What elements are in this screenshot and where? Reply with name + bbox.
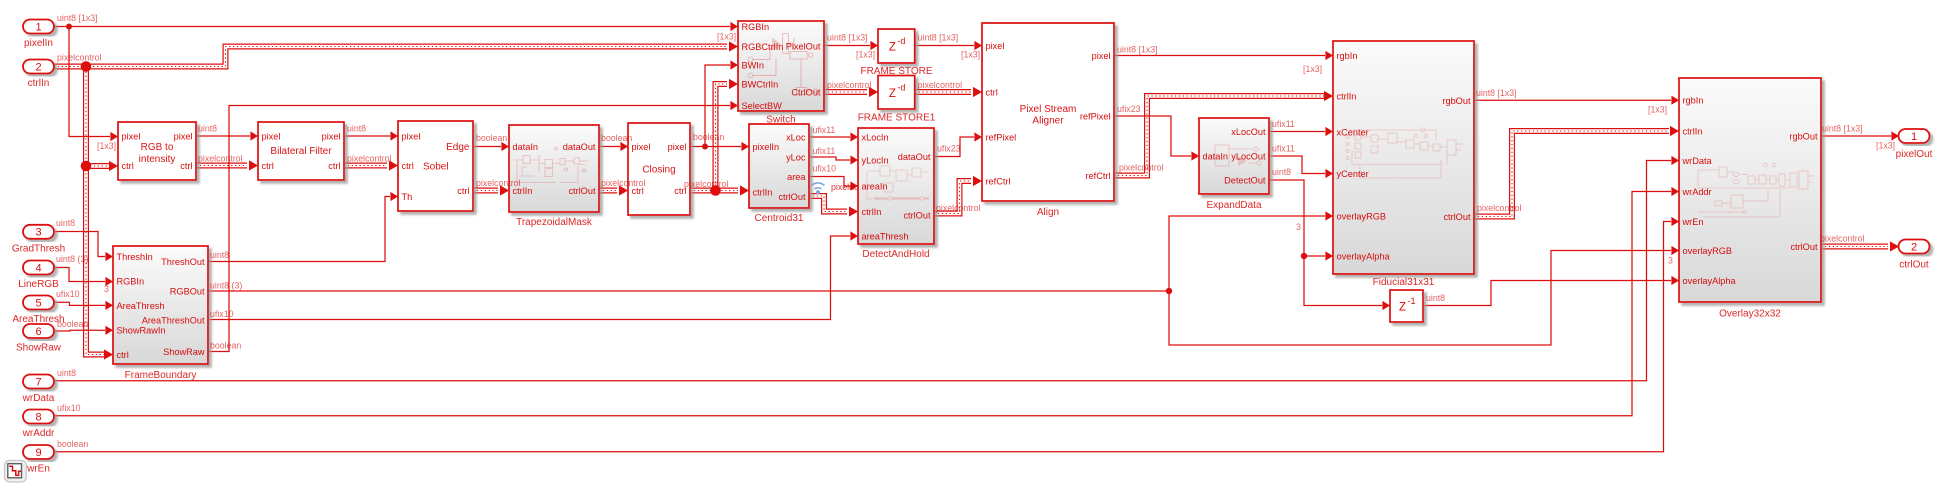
wire pixelIn branch to RGB to intensity pixel <box>69 27 118 142</box>
svg-text:refPixel: refPixel <box>986 132 1017 142</box>
svg-text:DetectAndHold: DetectAndHold <box>862 249 929 260</box>
svg-text:BWCtrlIn: BWCtrlIn <box>742 79 779 89</box>
annotation pixelcontrol at 347,161.5 <box>347 154 392 164</box>
annotation ufix10 at 56,297 <box>56 289 80 299</box>
inport 8 wrAddr <box>22 410 55 440</box>
svg-text:GradThresh: GradThresh <box>12 243 65 254</box>
annotation uint8 at 56,226 <box>56 218 75 228</box>
svg-text:pixel: pixel <box>1092 51 1111 61</box>
svg-text:FRAME STORE: FRAME STORE <box>860 66 932 77</box>
svg-text:Sobel: Sobel <box>423 162 449 173</box>
bus TrapezoidalMask ctrlOut to Closing ctrl <box>599 185 628 195</box>
inport 4 LineRGB <box>18 261 59 291</box>
svg-text:xLocOut: xLocOut <box>1231 127 1266 137</box>
svg-text:PixelOut: PixelOut <box>786 41 821 51</box>
annotation boolean at 601,141 <box>601 133 632 143</box>
wire Centroid31 area to DetectAndHold areaIn <box>809 177 858 191</box>
svg-text:Overlay32x32: Overlay32x32 <box>1719 309 1781 320</box>
signal name pixeldo label <box>831 182 859 192</box>
svg-text:Edge: Edge <box>446 142 470 153</box>
wire Align refPixel to ExpandData dataIn <box>1114 116 1199 161</box>
annotation 3 at 1668,263.5 <box>1668 256 1673 266</box>
label DetectAndHold <box>862 249 929 260</box>
svg-text:ctrlOut: ctrlOut <box>778 192 806 202</box>
annotation ufix23 at 1117,112 <box>1117 104 1141 114</box>
svg-text:ufix10: ufix10 <box>56 289 80 299</box>
svg-text:pixelIn: pixelIn <box>753 142 780 152</box>
annotation [1x3] at 856,57.5 <box>856 50 875 60</box>
inport 5 AreaThresh <box>12 296 64 326</box>
svg-text:5: 5 <box>35 297 41 309</box>
svg-text:ExpandData: ExpandData <box>1206 200 1261 211</box>
bus Centroid31 ctrlOut to DetectAndHold ctrlIn <box>809 196 858 217</box>
inport 9 wrEn <box>23 445 54 475</box>
annotation ufix11 at 812.5,133 <box>813 125 836 135</box>
svg-text:3: 3 <box>1296 222 1301 232</box>
svg-text:pixel: pixel <box>322 131 341 141</box>
svg-text:areaThresh: areaThresh <box>862 231 909 241</box>
svg-text:3: 3 <box>35 227 41 239</box>
annotation 3 at 104,292 <box>104 284 109 294</box>
svg-text:4: 4 <box>35 262 41 274</box>
annotation uint8 [1x3] at 827,40.5 <box>827 33 868 43</box>
svg-text:yLoc: yLoc <box>786 152 806 162</box>
svg-text:uint8 [1x3]: uint8 [1x3] <box>1822 124 1863 134</box>
svg-text:boolean: boolean <box>476 133 507 143</box>
svg-text:1: 1 <box>1911 131 1917 143</box>
annotation pixelcontrol at 684,187 <box>684 179 729 189</box>
label Switch <box>766 115 795 126</box>
svg-text:overlayAlpha: overlayAlpha <box>1683 276 1737 286</box>
wire Bilateral Filter pixel to Sobel <box>344 131 398 140</box>
svg-text:ThreshOut: ThreshOut <box>161 257 205 267</box>
svg-text:FrameBoundary: FrameBoundary <box>125 370 197 381</box>
svg-text:ctrlOut: ctrlOut <box>903 210 931 220</box>
label TrapezoidalMask <box>516 217 593 228</box>
junction BW ctrl bus node <box>710 185 721 196</box>
svg-text:ufix23: ufix23 <box>937 144 961 154</box>
label FRAME STORE <box>860 66 932 77</box>
svg-text:pixelcontrol: pixelcontrol <box>198 154 243 164</box>
svg-text:pixelcontrol: pixelcontrol <box>347 154 392 164</box>
svg-text:dataOut: dataOut <box>898 152 931 162</box>
svg-text:xCenter: xCenter <box>1337 127 1369 137</box>
block FRAME STORE (Z^-d delay) <box>878 29 915 63</box>
svg-text:areaIn: areaIn <box>862 181 888 191</box>
svg-text:wrEn: wrEn <box>26 464 50 475</box>
annotation boolean at 210,348.5 <box>210 341 241 351</box>
annotation boolean at 476,141 <box>476 133 507 143</box>
svg-text:ctrl: ctrl <box>328 161 340 171</box>
svg-text:ufix11: ufix11 <box>1272 119 1295 129</box>
svg-text:Align: Align <box>1037 207 1059 218</box>
annotation uint8 at 1272,175 <box>1272 167 1291 177</box>
bus Switch CtrlOut to FRAME STORE1 <box>824 87 878 97</box>
annotation uint8 [1x3] at 1476,96 <box>1476 88 1517 98</box>
outport 1 pixelOut <box>1896 129 1933 160</box>
svg-text:pixelcontrol: pixelcontrol <box>1820 234 1865 244</box>
label FrameBoundary <box>125 370 197 381</box>
svg-text:BWIn: BWIn <box>742 60 764 70</box>
svg-text:pixel: pixel <box>402 131 421 141</box>
svg-text:uint8 (3): uint8 (3) <box>56 254 88 264</box>
svg-text:yLocIn: yLocIn <box>862 155 889 165</box>
svg-text:uint8 (3): uint8 (3) <box>210 281 242 291</box>
wire Overlay32x32 rgbOut to pixelOut <box>1821 131 1899 140</box>
svg-text:-d: -d <box>897 82 905 92</box>
svg-text:boolean: boolean <box>601 133 632 143</box>
block RGB to intensity <box>118 122 196 180</box>
label Fiducial31x31 <box>1373 277 1435 288</box>
svg-text:rgbIn: rgbIn <box>1337 51 1358 61</box>
svg-text:pixeldo: pixeldo <box>831 182 859 192</box>
svg-text:ctrl: ctrl <box>457 186 469 196</box>
svg-text:pixel: pixel <box>668 142 687 152</box>
svg-text:9: 9 <box>35 447 41 459</box>
wire branch to Switch BWIn <box>705 60 738 146</box>
svg-text:xLocIn: xLocIn <box>862 132 889 142</box>
svg-text:dataOut: dataOut <box>563 142 596 152</box>
svg-text:intensity: intensity <box>139 154 176 165</box>
svg-text:ctrl: ctrl <box>402 161 414 171</box>
streaming signal badge (wifi icon) <box>812 183 825 194</box>
svg-text:uint8: uint8 <box>56 218 75 228</box>
label ExpandData <box>1206 200 1261 211</box>
svg-text:uint8: uint8 <box>57 368 76 378</box>
svg-text:uint8 [1x3]: uint8 [1x3] <box>57 13 98 23</box>
annotation 3 at 1296,230 <box>1296 222 1301 232</box>
svg-text:pixel: pixel <box>262 131 281 141</box>
svg-text:Th: Th <box>402 192 413 202</box>
svg-text:overlayRGB: overlayRGB <box>1683 246 1733 256</box>
svg-text:wrEn: wrEn <box>1682 217 1704 227</box>
annotation boolean at 57,327 <box>57 319 88 329</box>
annotation uint8 (3) at 210,288.5 <box>210 281 242 291</box>
wire FrameBoundary ThreshOut to Sobel Th <box>208 192 398 262</box>
inport 1 pixelIn <box>23 20 54 50</box>
annotation uint8 at 57,376 <box>57 368 76 378</box>
svg-text:TrapezoidalMask: TrapezoidalMask <box>516 217 593 228</box>
bus DetectAndHold ctrlOut to Align refCtrl <box>934 176 982 214</box>
svg-text:rgbOut: rgbOut <box>1442 96 1471 106</box>
label Centroid31 <box>755 213 804 224</box>
svg-text:ctrlOut: ctrlOut <box>568 186 596 196</box>
svg-text:uint8 [1x3]: uint8 [1x3] <box>1117 45 1158 55</box>
svg-text:3: 3 <box>104 284 109 294</box>
wire RGBOut branch to Overlay32x32 overlayRGB <box>1169 246 1679 345</box>
annotation pixelcontrol at 827,88 <box>827 80 872 90</box>
svg-text:boolean: boolean <box>57 319 88 329</box>
wire LineRGB to FrameBoundary RGBIn <box>54 268 113 287</box>
svg-text:RGB to: RGB to <box>141 142 174 153</box>
svg-text:wrAddr: wrAddr <box>1682 187 1712 197</box>
wire Centroid31 yLoc to DetectAndHold yLocIn <box>809 155 858 164</box>
svg-text:Pixel Stream: Pixel Stream <box>1020 104 1077 115</box>
svg-text:pixelcontrol: pixelcontrol <box>476 178 521 188</box>
block Closing <box>628 123 690 215</box>
svg-text:8: 8 <box>35 411 41 423</box>
svg-text:ShowRaw: ShowRaw <box>163 347 205 357</box>
svg-text:ctrl: ctrl <box>180 161 192 171</box>
svg-text:boolean: boolean <box>693 132 724 142</box>
annotation pixelcontrol at 601,186 <box>601 178 646 188</box>
wire DetectOut branch to Fiducial31x31 overlayAlpha <box>1304 251 1333 260</box>
svg-text:2: 2 <box>1911 241 1917 253</box>
wire FRAME STORE to Align pixel <box>915 41 982 50</box>
svg-text:rgbOut: rgbOut <box>1789 131 1818 141</box>
annotation uint8 (3) at 56,262 <box>56 254 88 264</box>
annotation uint8 [1x3] at 917.6,40.5 <box>918 33 959 43</box>
annotation uint8 [1x3] at 1117,52.5 <box>1117 45 1158 55</box>
wire GradThresh to FrameBoundary ThreshIn <box>54 232 113 262</box>
svg-text:FRAME STORE1: FRAME STORE1 <box>858 113 936 124</box>
inport 3 GradThresh <box>12 225 65 255</box>
annotation pixelcontrol at 1119,170.5 <box>1119 163 1164 173</box>
svg-text:refPixel: refPixel <box>1080 111 1111 121</box>
svg-text:pixel: pixel <box>122 131 141 141</box>
svg-text:[1x3]: [1x3] <box>97 141 116 151</box>
svg-text:overlayAlpha: overlayAlpha <box>1337 251 1391 261</box>
annotation uint8 at 347,131.5 <box>347 124 366 134</box>
svg-text:LineRGB: LineRGB <box>18 279 59 290</box>
svg-text:uint8 [1x3]: uint8 [1x3] <box>827 33 868 43</box>
svg-text:[1x3]: [1x3] <box>961 50 980 60</box>
junction BW pixel node <box>702 144 708 150</box>
svg-text:pixelcontrol: pixelcontrol <box>1477 203 1522 213</box>
wire RGBOut branch to Fiducial31x31 overlayRGB <box>1169 211 1333 291</box>
svg-text:-d: -d <box>897 36 905 46</box>
block unit delay Z^-1 <box>1390 290 1423 322</box>
svg-text:ufix11: ufix11 <box>813 125 836 135</box>
svg-text:ctrlOut: ctrlOut <box>1899 260 1929 271</box>
svg-text:2: 2 <box>35 61 41 73</box>
svg-text:ctrl: ctrl <box>122 161 134 171</box>
svg-text:1: 1 <box>35 21 41 33</box>
svg-text:uint8: uint8 <box>198 124 217 134</box>
svg-text:ufix10: ufix10 <box>813 164 837 174</box>
wire Align pixel to Fiducial31x31 rgbIn <box>1114 51 1333 60</box>
svg-text:uint8: uint8 <box>1426 293 1445 303</box>
bus Overlay32x32 ctrlOut to ctrlOut port <box>1821 241 1899 251</box>
svg-text:Centroid31: Centroid31 <box>755 213 804 224</box>
block FRAME STORE1 (Z^-d delay) <box>878 76 915 110</box>
svg-text:3: 3 <box>1668 256 1673 266</box>
svg-text:overlayRGB: overlayRGB <box>1337 211 1387 221</box>
svg-text:pixelIn: pixelIn <box>24 38 53 49</box>
svg-text:RGBCtrlIn: RGBCtrlIn <box>742 42 784 52</box>
bus branch to RGB to intensity ctrl <box>86 161 118 171</box>
svg-text:ctrl: ctrl <box>986 87 998 97</box>
svg-text:ufix23: ufix23 <box>1117 104 1141 114</box>
bus Align refCtrl to Fiducial31x31 ctrlIn <box>1114 91 1333 176</box>
block FrameBoundary <box>113 246 208 364</box>
svg-text:pixelcontrol: pixelcontrol <box>601 178 646 188</box>
svg-text:uint8: uint8 <box>210 250 229 260</box>
svg-text:wrData: wrData <box>1682 156 1713 166</box>
svg-text:[1x3]: [1x3] <box>1648 105 1667 115</box>
bus RGB to intensity ctrl to Bilateral Filter <box>196 160 258 170</box>
junction ctrlIn bus node <box>81 61 92 72</box>
svg-text:uint8 [1x3]: uint8 [1x3] <box>918 33 959 43</box>
junction ctrl bus node at RGB to intensity <box>81 161 92 172</box>
svg-text:dataIn: dataIn <box>513 142 539 152</box>
svg-text:ThreshIn: ThreshIn <box>117 252 153 262</box>
wire wrEn to Overlay32x32 wrEn <box>55 217 1679 452</box>
svg-text:[1x3]: [1x3] <box>1303 64 1322 74</box>
svg-text:SelectBW: SelectBW <box>742 101 783 111</box>
svg-text:yCenter: yCenter <box>1337 169 1369 179</box>
svg-text:yLocOut: yLocOut <box>1231 151 1266 161</box>
svg-text:refCtrl: refCtrl <box>1085 171 1110 181</box>
wire Sobel Edge to TrapezoidalMask dataIn <box>473 142 509 151</box>
svg-text:boolean: boolean <box>57 439 88 449</box>
wire TrapezoidalMask dataOut to Closing pixel <box>599 142 628 151</box>
annotation pixelcontrol at 1477,211 <box>1477 203 1522 213</box>
wire Switch PixelOut to FRAME STORE <box>824 41 878 50</box>
wire ExpandData yLocOut to Fiducial31x31 yCenter <box>1269 156 1333 178</box>
annotation ufix10 at 57,411 <box>57 403 81 413</box>
wire FrameBoundary ShowRaw to Switch SelectBW <box>208 101 738 352</box>
wire ShowRaw to FrameBoundary ShowRawIn <box>54 326 113 335</box>
svg-text:ufix10: ufix10 <box>57 403 81 413</box>
annotation pixelcontrol at 57,60.5 <box>57 53 102 63</box>
svg-text:ufix11: ufix11 <box>1272 144 1295 154</box>
svg-text:pixel: pixel <box>986 41 1005 51</box>
wire AreaThresh to FrameBoundary AreaThresh <box>54 301 113 310</box>
svg-text:DetectOut: DetectOut <box>1224 175 1266 185</box>
wire Centroid31 xLoc to DetectAndHold xLocIn <box>809 132 858 141</box>
annotation uint8 at 1426,301 <box>1426 293 1445 303</box>
svg-text:Z: Z <box>889 88 896 100</box>
svg-text:pixel: pixel <box>632 142 651 152</box>
svg-text:ufix11: ufix11 <box>813 146 836 156</box>
bus branch to Switch BWCtrlIn <box>716 79 739 191</box>
svg-text:ctrlIn: ctrlIn <box>28 78 50 89</box>
svg-text:ctrl: ctrl <box>117 350 129 360</box>
svg-text:Fiducial31x31: Fiducial31x31 <box>1373 277 1435 288</box>
svg-text:7: 7 <box>35 376 41 388</box>
inport 6 ShowRaw <box>16 324 62 354</box>
annotation boolean at 57,447 <box>57 439 88 449</box>
label FRAME STORE1 <box>858 113 936 124</box>
wire ExpandData xLocOut to Fiducial31x31 xCenter <box>1269 127 1333 136</box>
annotation [1x3] at 1648,112.5 <box>1648 105 1667 115</box>
block Sobel (Edge Detector) <box>398 121 473 211</box>
annotation ufix10 at 210,317 <box>210 309 234 319</box>
svg-text:pixelcontrol: pixelcontrol <box>918 80 963 90</box>
bus Bilateral Filter ctrl to Sobel <box>344 160 398 170</box>
annotation [1x3] at 97,149 <box>97 141 116 151</box>
svg-text:boolean: boolean <box>210 341 241 351</box>
label Overlay32x32 <box>1719 309 1781 320</box>
annotation uint8 [1x3] at 57,21 <box>57 13 98 23</box>
bus ctrlIn branch down to FrameBoundary ctrl <box>86 64 113 360</box>
bus Fiducial31x31 ctrlOut to Overlay32x32 ctrlIn <box>1474 126 1679 217</box>
svg-text:ctrlIn: ctrlIn <box>1683 126 1703 136</box>
outport 2 ctrlOut <box>1899 240 1930 271</box>
wire FrameBoundary RGBOut trunk <box>208 290 1169 292</box>
svg-text:ctrlOut: ctrlOut <box>1443 212 1471 222</box>
svg-text:[1x3]: [1x3] <box>856 50 875 60</box>
svg-text:ctrlOut: ctrlOut <box>1790 242 1818 252</box>
svg-text:wrAddr: wrAddr <box>22 428 55 439</box>
annotation [1x3] at 961,57.5 <box>961 50 980 60</box>
junction RGBOut node <box>1166 288 1172 294</box>
annotation ufix10 at 812.5,171.5 <box>813 164 837 174</box>
svg-text:RGBIn: RGBIn <box>117 276 145 286</box>
svg-text:uint8 [1x3]: uint8 [1x3] <box>1476 88 1517 98</box>
svg-text:wrData: wrData <box>22 393 55 404</box>
annotation pixelcontrol at 198,161.5 <box>198 154 243 164</box>
svg-text:ShowRaw: ShowRaw <box>16 343 62 354</box>
svg-text:ctrlIn: ctrlIn <box>753 187 773 197</box>
annotation uint8 at 198,131.5 <box>198 124 217 134</box>
svg-text:uint8: uint8 <box>347 124 366 134</box>
annotation boolean at 693,140 <box>693 132 724 142</box>
annotation ufix11 at 1272,151.5 <box>1272 144 1295 154</box>
inport 2 ctrlIn <box>23 60 54 90</box>
annotation [1x3] at 717,39.5 <box>717 32 736 42</box>
annotation pixelcontrol at 476,186 <box>476 178 521 188</box>
svg-text:pixelcontrol: pixelcontrol <box>1119 163 1164 173</box>
svg-text:pixelcontrol: pixelcontrol <box>684 179 729 189</box>
svg-text:CtrlOut: CtrlOut <box>791 87 821 97</box>
svg-text:pixelcontrol: pixelcontrol <box>827 80 872 90</box>
svg-text:Z: Z <box>1399 302 1406 314</box>
wire FrameBoundary AreaThreshOut to DetectAndHold areaThresh <box>208 231 858 319</box>
svg-text:xLoc: xLoc <box>786 132 806 142</box>
annotation [1x3] at 1876,148.5 <box>1876 141 1895 151</box>
svg-text:Closing: Closing <box>642 165 675 176</box>
annotation uint8 [1x3] at 1822,131.5 <box>1822 124 1863 134</box>
block Pixel Stream Aligner (Align) <box>982 23 1114 201</box>
svg-text:uint8: uint8 <box>1272 167 1291 177</box>
wire wrData to Overlay32x32 wrData <box>55 156 1679 381</box>
svg-text:pixelOut: pixelOut <box>1896 149 1933 160</box>
svg-text:RGBIn: RGBIn <box>742 22 770 32</box>
junction pixelIn branch node <box>66 24 72 30</box>
annotation ufix11 at 1272,127 <box>1272 119 1295 129</box>
svg-text:6: 6 <box>35 326 41 338</box>
wire Fiducial31x31 rgbOut to Overlay32x32 rgbIn <box>1474 96 1679 105</box>
inport 7 wrData <box>22 375 55 405</box>
svg-text:RGBOut: RGBOut <box>170 286 205 296</box>
svg-text:dataIn: dataIn <box>1203 151 1229 161</box>
bus Sobel ctrl to TrapezoidalMask ctrlIn <box>473 185 509 195</box>
svg-text:area: area <box>787 172 806 182</box>
svg-text:Z: Z <box>889 42 896 54</box>
svg-text:ShowRawIn: ShowRawIn <box>117 325 166 335</box>
annotation pixelcontrol at 1820,241.5 <box>1820 234 1865 244</box>
subsystem badge icon bottom-left <box>5 461 27 483</box>
svg-text:refCtrl: refCtrl <box>986 176 1011 186</box>
svg-text:pixelcontrol: pixelcontrol <box>57 53 102 63</box>
svg-text:ctrl: ctrl <box>262 161 274 171</box>
wire wrAddr to Overlay32x32 wrAddr <box>55 187 1679 416</box>
annotation uint8 at 210,258 <box>210 250 229 260</box>
wire unit delay to Overlay32x32 overlayAlpha <box>1423 276 1679 306</box>
svg-text:ctrlIn: ctrlIn <box>862 207 882 217</box>
annotation [1x3] at 1303,72 <box>1303 64 1322 74</box>
bus Closing ctrl to Centroid31 ctrlIn <box>690 185 749 195</box>
svg-text:AreaThreshOut: AreaThreshOut <box>142 315 205 325</box>
svg-text:AreaThresh: AreaThresh <box>117 301 165 311</box>
svg-text:rgbIn: rgbIn <box>1683 95 1704 105</box>
svg-text:ufix10: ufix10 <box>210 309 234 319</box>
wire pixelIn trunk <box>54 22 738 31</box>
svg-text:Bilateral Filter: Bilateral Filter <box>270 146 332 157</box>
wire DetectAndHold dataOut to Align refPixel <box>934 132 982 156</box>
